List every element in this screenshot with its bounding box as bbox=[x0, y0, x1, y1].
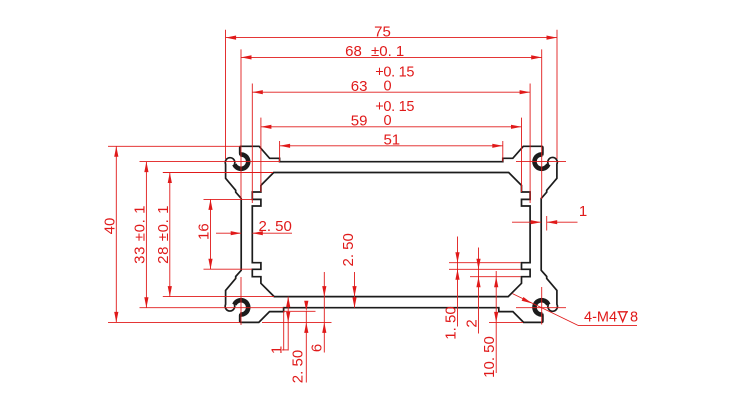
svg-text:0: 0 bbox=[384, 79, 392, 95]
svg-text:6: 6 bbox=[308, 344, 325, 352]
svg-text:2: 2 bbox=[464, 319, 481, 327]
svg-text:1. 50: 1. 50 bbox=[443, 306, 460, 339]
svg-text:10. 50: 10. 50 bbox=[481, 336, 498, 378]
svg-text:8: 8 bbox=[630, 310, 638, 326]
dim 2.50 bottom left bbox=[305, 311, 307, 382]
svg-text:1: 1 bbox=[269, 346, 286, 354]
svg-text:4-M4: 4-M4 bbox=[584, 310, 617, 326]
svg-text:68: 68 bbox=[345, 43, 362, 60]
extension lines top bbox=[225, 30, 227, 159]
svg-text:63: 63 bbox=[351, 78, 368, 95]
svg-text:2. 50: 2. 50 bbox=[340, 233, 357, 266]
dim 75 line bbox=[226, 37, 557, 39]
dim 40 line bbox=[115, 146, 117, 322]
screw boss bottom-right (thick C) bbox=[534, 300, 548, 314]
svg-text:51: 51 bbox=[383, 131, 400, 148]
svg-text:40: 40 bbox=[101, 218, 118, 235]
screw boss top-left (thick C) bbox=[234, 154, 248, 168]
boss centerlines vertical bottom bbox=[240, 277, 242, 325]
dim 6 bottom left bbox=[323, 272, 325, 353]
svg-text:2. 50: 2. 50 bbox=[259, 218, 292, 235]
dim 59 line bbox=[261, 126, 522, 128]
svg-text:28 ±0. 1: 28 ±0. 1 bbox=[155, 205, 172, 264]
boss centerlines horizontal right bbox=[516, 161, 566, 163]
dim 2.50 left wall bbox=[216, 232, 241, 234]
screw boss bottom-left (thick C) bbox=[234, 300, 248, 314]
svg-text:16: 16 bbox=[196, 223, 213, 240]
depth symbol bbox=[618, 312, 629, 322]
svg-text:75: 75 bbox=[374, 23, 391, 40]
dim 63 line bbox=[252, 91, 530, 93]
extension lines left bbox=[108, 145, 240, 147]
dim 2.50 bottom middle bbox=[354, 272, 356, 308]
dim 68 line bbox=[241, 56, 542, 58]
dim 2 bottom right bbox=[478, 248, 480, 334]
dim 1 right wall bbox=[512, 221, 541, 223]
svg-text:0: 0 bbox=[384, 113, 392, 129]
svg-text:+0. 15: +0. 15 bbox=[375, 99, 414, 115]
svg-text:±0. 1: ±0. 1 bbox=[371, 43, 404, 60]
dim 33 line bbox=[145, 162, 147, 308]
svg-text:59: 59 bbox=[351, 113, 368, 130]
dim 1.50 bottom right bbox=[457, 237, 459, 327]
dim 1 bottom left bbox=[283, 311, 285, 350]
ext lines bottom left bbox=[284, 310, 316, 312]
dim 16 line bbox=[210, 199, 212, 269]
leader 4-M4 bbox=[513, 294, 579, 326]
extrusion profile inner cavity contour bbox=[252, 173, 530, 297]
ext lines bottom right bbox=[449, 262, 521, 264]
screw boss top-right (thick C) bbox=[534, 154, 548, 168]
dim 10.50 bottom right bbox=[495, 271, 497, 373]
svg-text:2. 50: 2. 50 bbox=[290, 350, 307, 383]
svg-text:+0. 15: +0. 15 bbox=[375, 64, 414, 80]
dim 51 line bbox=[280, 145, 503, 147]
svg-text:33 ±0. 1: 33 ±0. 1 bbox=[131, 205, 148, 264]
extrusion profile outer contour bbox=[225, 146, 557, 322]
dim 28 line bbox=[169, 173, 171, 297]
svg-text:1: 1 bbox=[579, 203, 587, 220]
